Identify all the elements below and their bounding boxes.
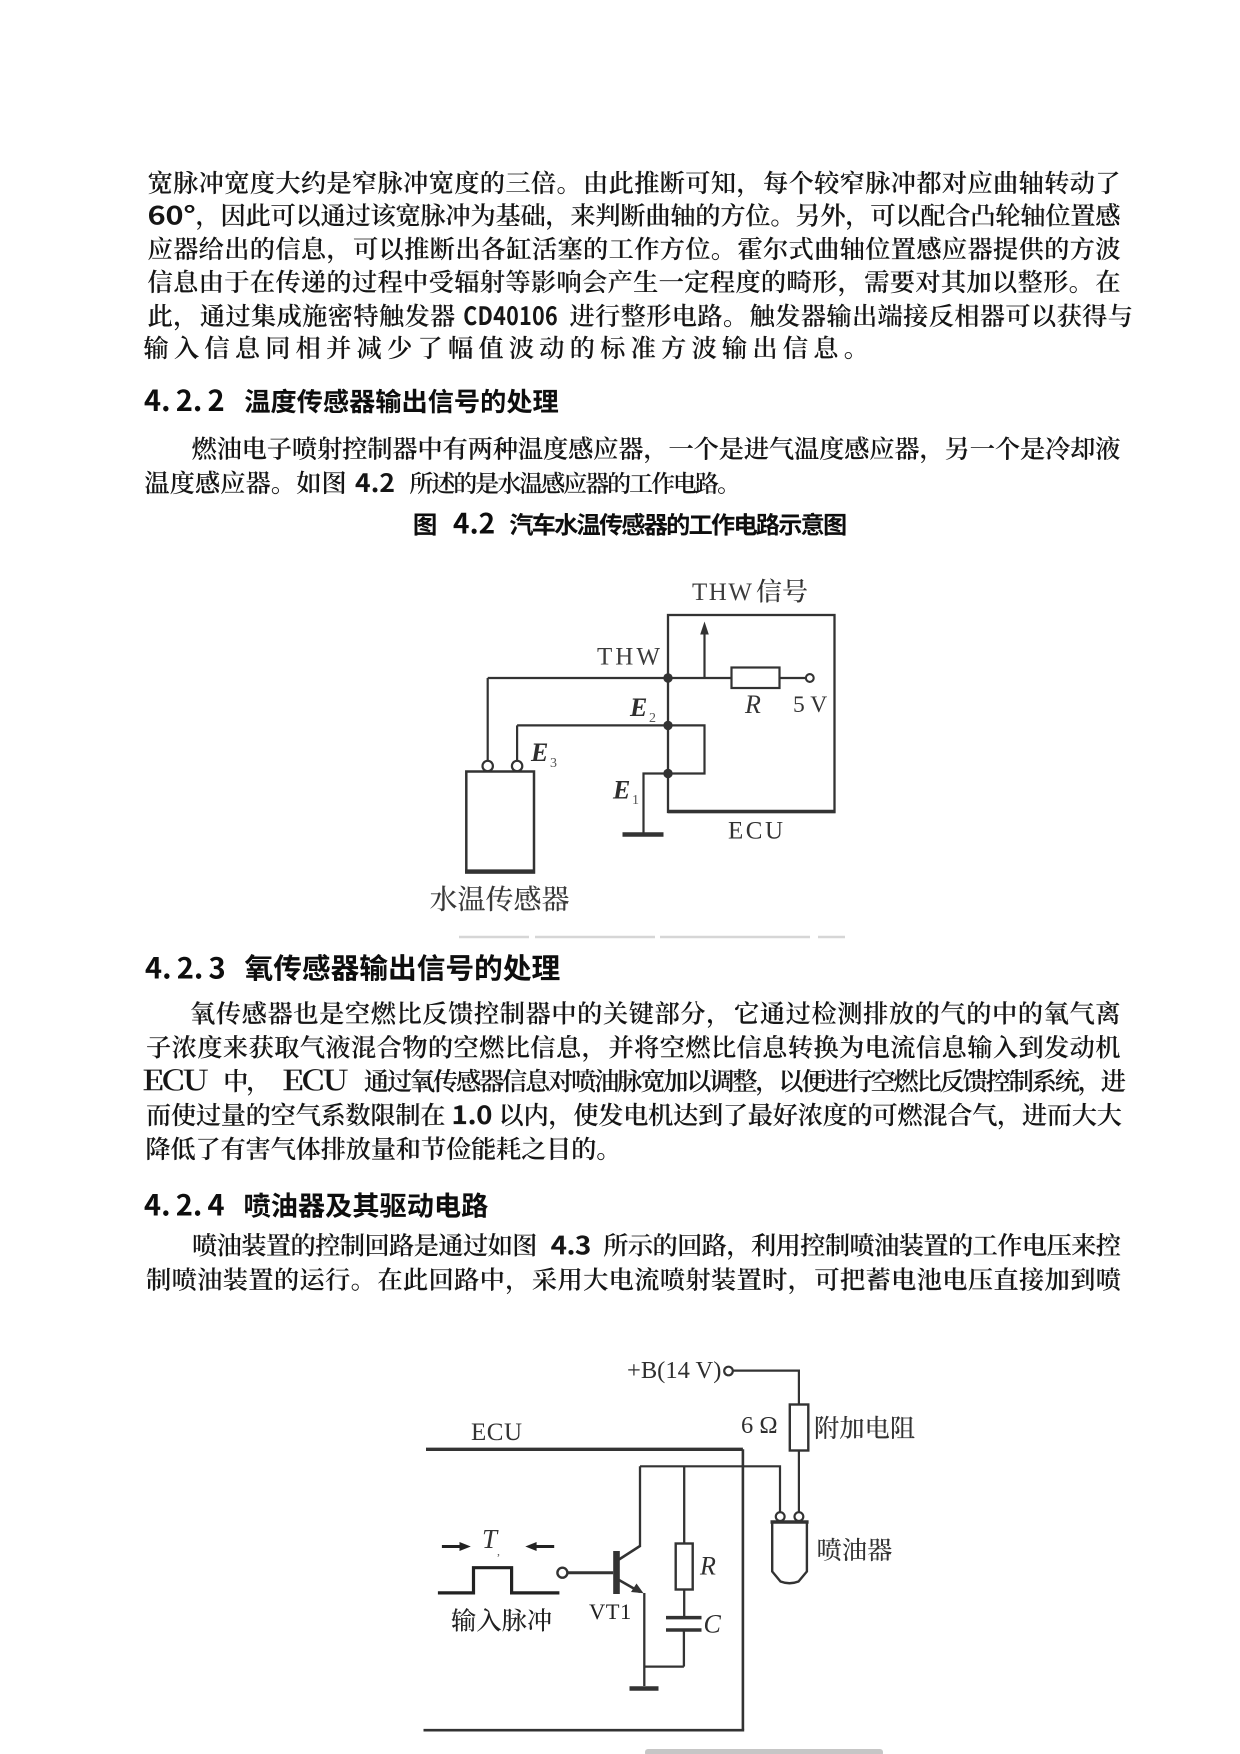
label T_i — [482, 1524, 500, 1558]
junction E2 — [663, 721, 672, 730]
label 水温传感器 — [430, 885, 569, 911]
emitter lead down — [643, 1593, 645, 1686]
svg-text:THW: THW — [597, 644, 663, 671]
svg-text:,: , — [497, 1544, 500, 1558]
scan smudge under figure — [459, 936, 845, 938]
paragraph: oxygen sensor — [191, 1001, 1119, 1028]
base input terminal — [557, 1568, 567, 1578]
emitter diagonal with arrow — [619, 1580, 644, 1593]
heading 4.2.3 — [146, 954, 560, 981]
resistor R (pull-up) — [732, 668, 780, 689]
wire emitter to capacitor bottom — [644, 1665, 684, 1667]
svg-text:+B(14 V): +B(14 V) — [627, 1357, 721, 1384]
resistor R — [676, 1544, 693, 1590]
svg-text:THW: THW — [692, 579, 753, 606]
ECU box right edge — [742, 1449, 745, 1729]
label 喷油器 — [818, 1538, 891, 1561]
wire +B to series resistor — [733, 1371, 799, 1405]
wire loop E2 to E1 inside ECU — [668, 725, 705, 773]
wire THW from sensor to resistor — [488, 677, 732, 679]
ECU box top edge — [426, 1448, 743, 1451]
capacitor bottom lead — [683, 1630, 685, 1667]
transistor VT1 base bar — [613, 1551, 620, 1594]
label E3 — [530, 738, 557, 771]
wire sensor terminal2 up to E2 — [516, 725, 518, 760]
resistor R leads — [683, 1466, 685, 1543]
injector terminal circles — [776, 1512, 804, 1521]
label 输入脉冲 — [452, 1608, 552, 1632]
figure caption 4.2 — [415, 514, 436, 536]
wire ECU output to injector left pin — [640, 1466, 780, 1512]
paragraph: pulse width discussion — [149, 170, 1119, 197]
series resistor 6 ohm (附加电阻) — [790, 1405, 809, 1451]
wire sensor terminal1 up to THW — [487, 678, 489, 761]
paragraph: injector drive circuit — [194, 1233, 1120, 1260]
svg-text:ECU: ECU — [471, 1419, 523, 1446]
label THW signal (THW信号) — [692, 578, 807, 606]
partially visible next figure (gray bar at page bottom) — [645, 1749, 883, 1754]
capacitor C plates — [666, 1618, 702, 1630]
label E1 — [612, 776, 639, 809]
water temperature sensor body — [465, 772, 535, 873]
pulse width arrow left — [442, 1542, 471, 1551]
wire resistor to 5V terminal — [780, 677, 806, 679]
paragraph: two temperature sensors — [192, 436, 1120, 463]
collector diagonal — [619, 1546, 640, 1560]
terminal 5V — [806, 674, 814, 682]
terminal +B — [724, 1367, 733, 1376]
wire resistor to injector — [798, 1451, 800, 1513]
svg-text:E: E — [612, 776, 630, 805]
heading 4.2.2 — [145, 389, 558, 414]
wire E1 to ground — [644, 774, 669, 834]
arrow THW signal output — [700, 622, 709, 679]
svg-text:ECU: ECU — [728, 818, 786, 845]
junction E1 — [663, 769, 672, 778]
svg-text:R: R — [699, 1552, 716, 1581]
svg-text:5 V: 5 V — [793, 692, 827, 718]
input pulse waveform — [438, 1568, 560, 1593]
sensor terminal circles — [483, 761, 523, 771]
svg-text:R: R — [744, 690, 761, 719]
junction THW node — [663, 673, 672, 682]
label E2 — [629, 693, 656, 726]
wire E2 from sensor to ECU — [517, 724, 668, 726]
svg-text:E: E — [629, 693, 647, 722]
pulse width arrow right — [525, 1542, 554, 1551]
ECU box — [668, 615, 836, 812]
heading 4.2.4 — [145, 1192, 488, 1217]
label 附加电阻 — [816, 1416, 915, 1439]
svg-text:2: 2 — [649, 711, 656, 726]
collector lead VT1 — [639, 1466, 641, 1547]
ground — [630, 1686, 659, 1691]
svg-text:C: C — [704, 1610, 722, 1639]
svg-text:1: 1 — [632, 793, 639, 808]
svg-text:3: 3 — [550, 756, 557, 771]
svg-text:6 Ω: 6 Ω — [741, 1412, 778, 1439]
svg-text:E: E — [530, 738, 548, 767]
svg-text:VT1: VT1 — [589, 1599, 632, 1624]
ground — [623, 832, 664, 837]
base lead — [567, 1571, 613, 1574]
injector body (喷油器) — [771, 1522, 809, 1583]
ECU box bottom edge — [424, 1729, 745, 1732]
